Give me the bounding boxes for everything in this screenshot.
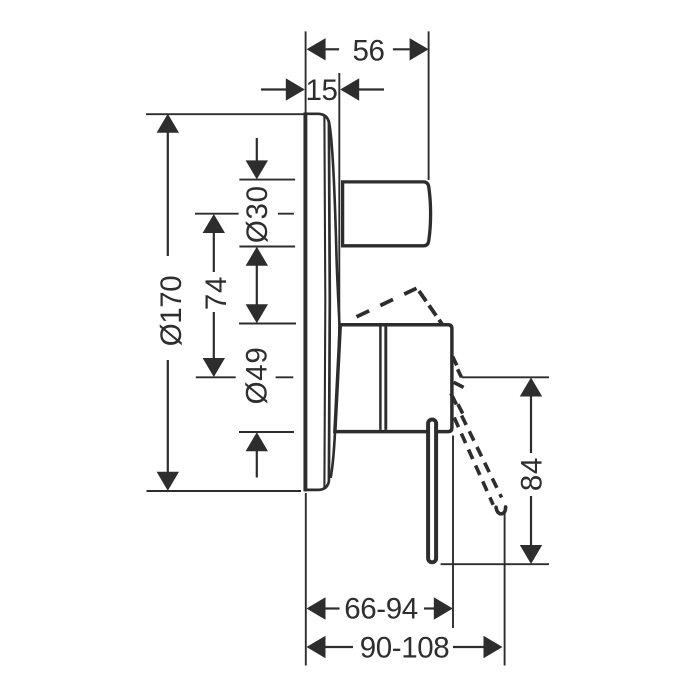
dimension 56 line (326, 48, 410, 50)
dashed swung handle bottom dash (454, 382, 464, 387)
dashed swung rod neck dash 2 (458, 404, 463, 413)
handle body separator line 1 (379, 327, 382, 430)
dimension 90-108 line (326, 646, 484, 648)
svg-text:84: 84 (515, 457, 548, 491)
dashed swung handle top edge (357, 288, 417, 317)
svg-text:56: 56 (352, 35, 384, 68)
dimension Ø30/Ø49 chain line (256, 138, 258, 478)
escutcheon plate outer contour (304, 114, 330, 490)
lever rod (428, 420, 436, 563)
dimension 66-94 line (326, 607, 435, 609)
handle centerline right (276, 376, 294, 378)
dashed swung lever rod end cap (496, 507, 506, 514)
escutcheon plate dome silhouette arc (329, 121, 340, 479)
knob centerline right (278, 213, 294, 215)
dimension 15 arrows (286, 78, 359, 100)
extension line handle bottom (Ø49) (239, 431, 294, 433)
dashed swung handle end face (419, 291, 443, 325)
dimension Ø30/Ø49 chain arrows (246, 160, 268, 451)
extension line swung lever end (90-108 right) (504, 509, 506, 666)
svg-text:15: 15 (305, 74, 337, 107)
svg-text:Ø30: Ø30 (241, 185, 274, 243)
dimension 56 arrows (307, 38, 429, 60)
extension line lever tip (84 bottom) (441, 563, 549, 565)
dimension 66-94 arrows (307, 597, 453, 619)
diverter knob (343, 182, 431, 246)
knob centerline left (195, 213, 239, 215)
escutcheon plate front face inner line (323, 115, 326, 488)
dimension 84 line (530, 396, 532, 545)
dimension 74 line (213, 232, 215, 359)
extension line handle top (Ø49) (239, 323, 296, 325)
extension line handle axis right (84 top) (462, 376, 550, 378)
escutcheon plate back edge (303, 112, 307, 491)
wall/back-plane extension line (bottom segment) (305, 493, 307, 666)
svg-text:Ø170: Ø170 (155, 276, 188, 347)
svg-text:66-94: 66-94 (344, 592, 417, 625)
extension line knob bottom (Ø30) (239, 246, 295, 248)
extension line knob top (Ø30) (239, 179, 295, 181)
handle body separator line 2 (384, 327, 387, 430)
extension line plate top (Ø170) (146, 113, 304, 115)
handle centerline left (196, 376, 236, 378)
dashed swung handle edge dash 2 (458, 369, 462, 377)
dimension 84 arrows (520, 378, 542, 565)
dimension 90-108 arrows (307, 636, 503, 658)
dashed swung lever rod right edge (462, 416, 502, 498)
extension line knob front (56 right) (428, 31, 430, 180)
dashed swung rod neck dash 1 (451, 393, 457, 404)
wall/back-plane extension line (top segment) (305, 31, 307, 113)
dimension 74 arrows (203, 214, 225, 377)
dimension Ø170 line (167, 132, 169, 472)
extension line plate face (15 right) (338, 73, 340, 324)
svg-text:74: 74 (200, 276, 233, 310)
dashed swung handle edge dash 1 (453, 357, 457, 366)
svg-text:Ø49: Ø49 (241, 347, 274, 405)
extension line plate bottom (Ø170) (147, 490, 302, 492)
extension line handle end (66-94 right) (452, 436, 454, 629)
dimension 15 line (261, 88, 384, 90)
dashed swung lever rod left edge (454, 418, 493, 505)
handle body (335, 325, 452, 432)
svg-text:90-108: 90-108 (360, 632, 449, 665)
dimension Ø170 arrows (157, 114, 179, 491)
